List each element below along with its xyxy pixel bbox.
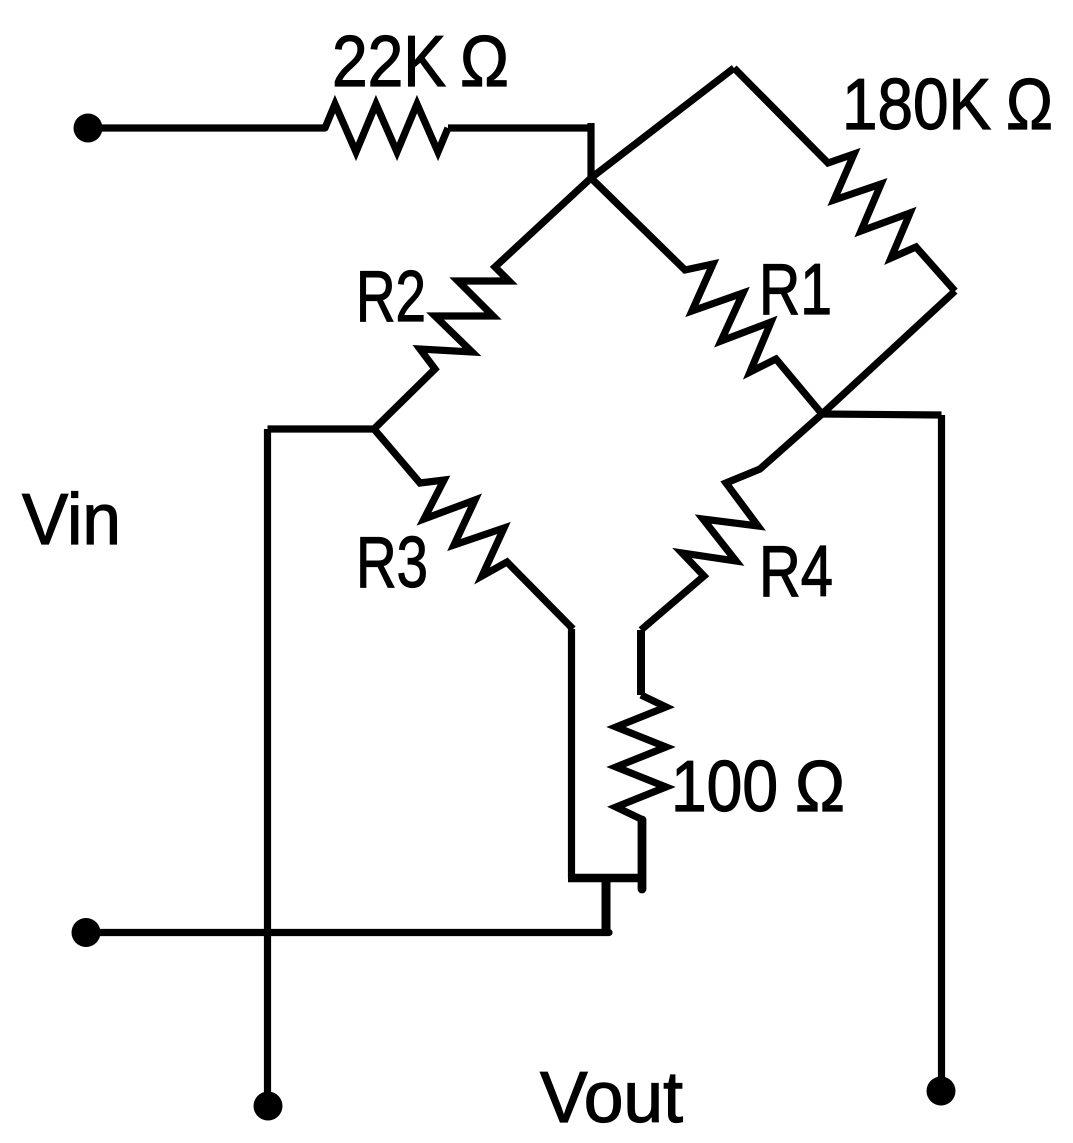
wire Vin- horizontal — [86, 929, 609, 936]
wire R4 to 100 ohm — [637, 630, 645, 695]
resistor R1 — [591, 178, 822, 414]
wire 100 ohm bottom lead — [638, 820, 647, 889]
svg-text:R3: R3 — [356, 523, 428, 603]
wire top node to peak — [591, 68, 734, 178]
wire Vin+ horizontal — [88, 124, 325, 131]
svg-text:180K: 180K — [842, 65, 991, 145]
svg-text:Vout: Vout — [540, 1058, 683, 1138]
resistor R4 — [641, 414, 822, 630]
svg-text:22K: 22K — [332, 22, 446, 102]
wire vertical stub to top node — [587, 123, 594, 178]
resistor 22K ohm zigzag — [325, 104, 448, 152]
svg-text:Vin: Vin — [22, 480, 121, 560]
wire R3 vertical lead — [568, 629, 575, 878]
wire bottom junction horizontal — [568, 874, 646, 883]
node Vin+ terminal — [74, 114, 103, 143]
wire left node to left rail — [268, 425, 375, 432]
svg-text:R4: R4 — [759, 532, 833, 612]
node lower-left terminal — [254, 1092, 283, 1121]
svg-text:Ω: Ω — [460, 22, 509, 102]
resistor 180K ohm — [734, 68, 955, 291]
wire 22K to corner — [448, 124, 591, 131]
resistor 100 ohm zigzag — [616, 695, 666, 820]
wire left rail vertical — [264, 429, 271, 1094]
resistor R2 — [374, 178, 591, 429]
node Vout+ terminal — [927, 1077, 956, 1106]
resistor R3 — [374, 429, 573, 629]
svg-text:Ω: Ω — [1006, 65, 1053, 145]
wire right node to right rail — [822, 414, 942, 415]
node Vin- terminal — [72, 918, 101, 947]
wire vertex to right node — [822, 291, 955, 414]
svg-text:100: 100 — [671, 747, 778, 827]
svg-text:R1: R1 — [759, 250, 832, 330]
wire right rail vertical — [938, 415, 945, 1079]
svg-text:Ω: Ω — [795, 747, 845, 827]
wire junction step vertical — [602, 878, 611, 933]
svg-text:R2: R2 — [356, 257, 426, 337]
